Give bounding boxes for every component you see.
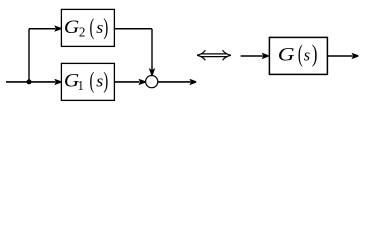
svg-text:): ) bbox=[103, 69, 108, 94]
svg-text:1: 1 bbox=[78, 77, 84, 93]
label G2(s) bbox=[64, 15, 108, 40]
svg-text:G: G bbox=[278, 43, 295, 65]
svg-text:(: ( bbox=[298, 41, 303, 68]
svg-text:): ) bbox=[312, 42, 318, 67]
svg-text:s: s bbox=[304, 45, 310, 64]
arrowhead output right diagram bbox=[352, 53, 359, 59]
svg-text:s: s bbox=[96, 17, 103, 37]
svg-text:(: ( bbox=[90, 15, 95, 40]
wire: input to G block bbox=[241, 55, 263, 57]
wire: G1 output to summing circle bbox=[114, 81, 139, 83]
block G1 bbox=[61, 63, 114, 100]
arrowhead output left diagram bbox=[189, 79, 196, 85]
arrowhead into summing circle left bbox=[139, 79, 146, 85]
wire: summing circle output bbox=[158, 81, 191, 83]
wire: top row into G2 bbox=[29, 28, 55, 30]
arrowhead into G2 bbox=[54, 25, 61, 31]
arrowhead into G block bbox=[262, 53, 269, 59]
svg-text:(: ( bbox=[90, 69, 95, 94]
svg-text:s: s bbox=[96, 71, 103, 91]
summing junction circle bbox=[146, 76, 158, 88]
wire: G block output bbox=[327, 55, 352, 57]
wire: vertical stem from junction up to top row bbox=[28, 29, 30, 82]
equivalence double arrow bbox=[197, 50, 231, 60]
svg-text:2: 2 bbox=[79, 24, 86, 40]
node: junction dot bbox=[27, 79, 32, 84]
wire: G2 output to corner bbox=[114, 28, 152, 30]
label G(s) bbox=[278, 41, 318, 68]
block G2 bbox=[61, 9, 114, 46]
wire: input line bottom row bbox=[6, 81, 55, 83]
wire: down to summing junction bbox=[151, 29, 153, 70]
svg-text:): ) bbox=[103, 15, 108, 40]
svg-text:G: G bbox=[64, 17, 80, 38]
arrowhead down into summing circle bbox=[149, 68, 155, 75]
block G bbox=[269, 37, 327, 74]
label G1(s) bbox=[64, 69, 108, 94]
arrowhead into G1 bbox=[54, 79, 61, 85]
